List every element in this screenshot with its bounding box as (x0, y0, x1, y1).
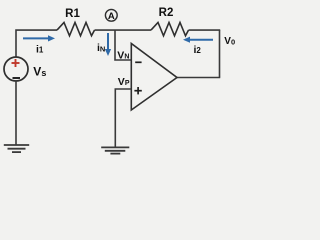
svg-text:R2: R2 (159, 7, 174, 19)
resistor R2 (151, 23, 189, 36)
svg-text:i2: i2 (194, 44, 202, 56)
current arrow iN (105, 33, 111, 56)
ground (op-amp side) (101, 147, 129, 153)
svg-text:R1: R1 (65, 8, 80, 20)
ground (source side) (4, 145, 29, 152)
wire from source top to R1 (16, 30, 57, 57)
svg-text:i1: i1 (36, 43, 44, 55)
svg-text:V0: V0 (224, 36, 235, 47)
svg-text:iN: iN (97, 42, 105, 54)
wire R2 to right corner (189, 29, 221, 31)
op-amp U1 (131, 44, 177, 111)
resistor R1 (57, 23, 95, 36)
source minus sign (13, 77, 21, 79)
current arrow i1 (23, 35, 55, 41)
wire R1 to R2 (95, 29, 152, 31)
node A (105, 9, 117, 21)
wire op-amp output (177, 77, 221, 79)
wire right vertical (219, 30, 221, 77)
svg-text:A: A (108, 11, 115, 22)
source plus sign (12, 59, 20, 67)
wire source to ground (15, 81, 17, 145)
wire node to inverting input (115, 30, 131, 60)
current arrow i2 (183, 37, 213, 43)
voltage source Vs (4, 57, 28, 81)
op-amp plus pin (134, 87, 141, 94)
wire non-inverting input to ground (115, 89, 131, 147)
op-amp minus pin (135, 61, 141, 63)
